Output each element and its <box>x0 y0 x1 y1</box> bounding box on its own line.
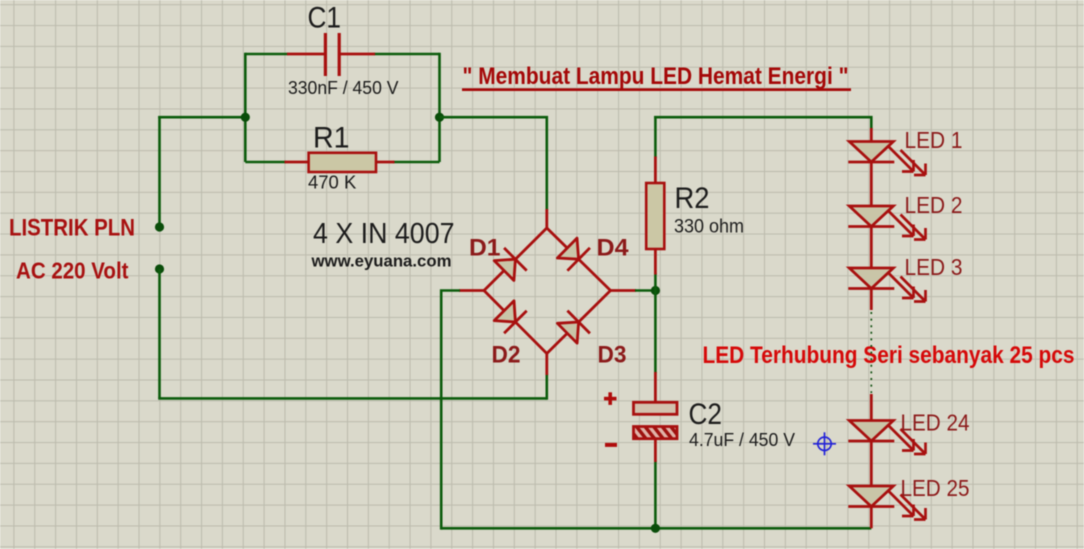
svg-text:D2: D2 <box>492 342 521 369</box>
svg-text:LED 2: LED 2 <box>905 192 963 218</box>
svg-text:330 ohm: 330 ohm <box>674 217 744 238</box>
wire bridge left stub <box>459 289 484 292</box>
wire node C down to C2 <box>654 291 657 374</box>
svg-text:D4: D4 <box>597 235 630 262</box>
svg-text:" Membuat Lampu LED Hemat Ener: " Membuat Lampu LED Hemat Energi " <box>463 63 849 90</box>
LED 1 <box>848 128 925 206</box>
svg-text:4 X IN 4007: 4 X IN 4007 <box>313 218 455 250</box>
wire bottom AC horizontal to bridge bottom <box>158 397 547 400</box>
origin marker (blue crosshair) <box>813 432 836 455</box>
wire bridge left vertex to DC- rail <box>441 291 460 530</box>
wire R2 top green <box>654 116 657 158</box>
node B junction dot <box>435 113 444 122</box>
node: bottom rail C2 junction dot <box>651 524 660 533</box>
wire bridge bottom vertical green part <box>545 374 548 400</box>
LED 2 <box>848 206 925 268</box>
wire C1 top right green <box>374 53 440 56</box>
title underline <box>462 88 851 91</box>
wire C2 bottom to rail <box>654 461 657 528</box>
LED 25 <box>848 486 925 528</box>
wire bottom DC- rail <box>441 527 871 530</box>
wire bridge top stub <box>545 209 548 228</box>
svg-text:LED 1: LED 1 <box>905 127 963 153</box>
svg-text:4.7uF / 450 V: 4.7uF / 450 V <box>689 429 796 450</box>
svg-text:470 K: 470 K <box>308 172 357 193</box>
capacitor C1 <box>287 33 375 76</box>
diode D2 <box>494 301 527 334</box>
svg-text:R1: R1 <box>313 122 350 155</box>
wire bridge right stub <box>611 289 637 292</box>
svg-text:www.eyuana.com: www.eyuana.com <box>310 253 451 271</box>
capacitor C2 <box>634 372 678 462</box>
svg-text:LED 3: LED 3 <box>905 254 963 280</box>
svg-text:LED 24: LED 24 <box>901 410 970 436</box>
node A junction dot <box>241 113 250 122</box>
node C junction dot <box>651 286 660 295</box>
node: upper AC terminal dot <box>155 222 164 231</box>
svg-text:330nF / 450 V: 330nF / 450 V <box>288 77 399 98</box>
diode bridge outline wires <box>459 209 636 375</box>
LED 3 <box>848 268 925 310</box>
C2 plus sign <box>604 392 617 405</box>
wire lower AC down left rail <box>158 269 161 398</box>
LED 24 <box>848 394 925 486</box>
wire R2 bottom green <box>654 273 657 291</box>
wire R1 right green <box>393 161 440 164</box>
wire C1 top left green <box>245 53 288 56</box>
svg-text:AC 220 Volt: AC 220 Volt <box>16 258 129 284</box>
node: lower AC terminal dot <box>155 264 164 273</box>
svg-text:C1: C1 <box>308 2 342 35</box>
wire bridge right vertex to node C <box>635 289 655 292</box>
svg-text:C2: C2 <box>689 398 723 431</box>
wire left rail vertical to upper AC terminal <box>158 116 161 227</box>
wire C1R1 right vertical <box>438 53 441 162</box>
wire node B to bridge top corner <box>440 117 547 210</box>
wire top right horizontal to LED string <box>654 117 871 129</box>
wire R1 left green <box>245 161 286 164</box>
svg-text:R2: R2 <box>675 182 710 215</box>
resistor R2 <box>646 157 664 275</box>
diode D1 <box>494 248 527 281</box>
svg-text:LED Terhubung Seri sebanyak 25: LED Terhubung Seri sebanyak 25 pcs <box>703 342 1075 369</box>
svg-text:LED 25: LED 25 <box>901 475 970 501</box>
wire bridge bottom stub <box>545 354 548 376</box>
diode D4 <box>557 238 590 271</box>
C2 minus sign <box>605 443 617 447</box>
svg-text:D3: D3 <box>598 342 627 369</box>
wire dashed continuation of LED string <box>870 312 872 393</box>
diode D3 <box>557 311 590 344</box>
resistor R1 <box>285 153 395 172</box>
wire C1R1 left vertical <box>244 53 247 162</box>
svg-text:LISTRIK PLN: LISTRIK PLN <box>9 215 135 242</box>
svg-text:D1: D1 <box>469 235 501 262</box>
wire top-left horizontal from left rail to node A <box>158 116 246 119</box>
